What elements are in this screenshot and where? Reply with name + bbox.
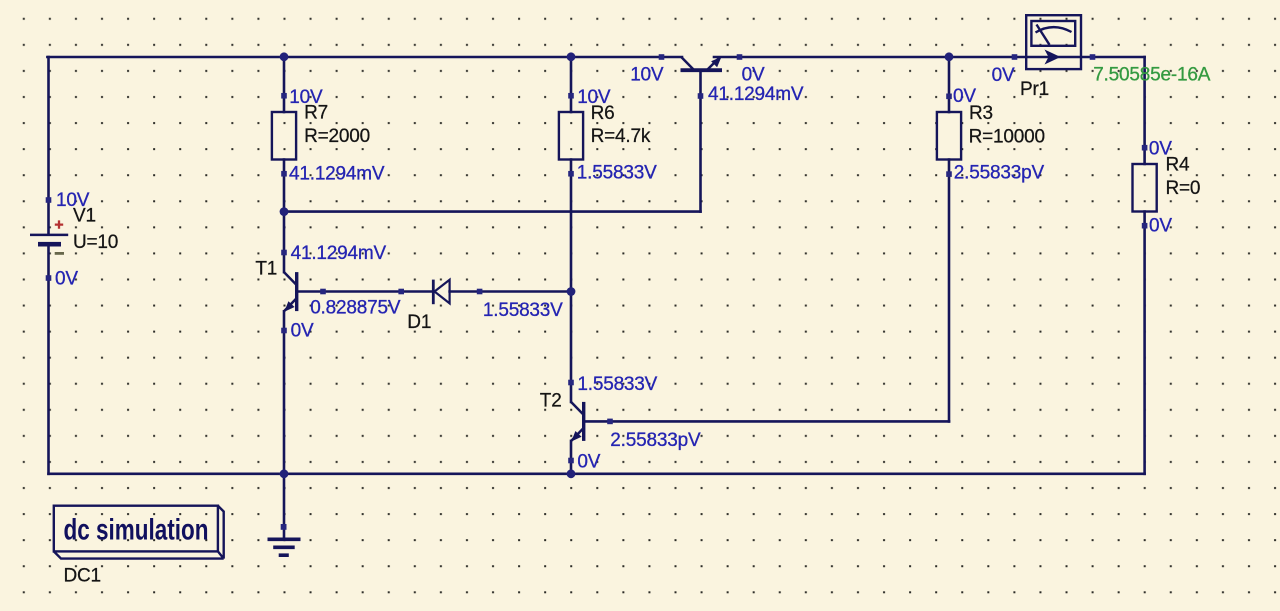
wire R6 branch upper — [570, 57, 573, 112]
wire bottom horizontal — [49, 472, 1145, 475]
wire top right horizontal — [714, 56, 1145, 59]
svg-text:0V: 0V — [742, 65, 765, 86]
svg-text:1.55833V: 1.55833V — [577, 374, 657, 395]
resistor R6 — [559, 112, 583, 160]
wire T1 emitter down — [283, 311, 286, 474]
dc simulation block DC1 — [54, 506, 224, 559]
svg-text:0V: 0V — [291, 320, 314, 341]
junction node F (284,473.8) — [280, 469, 289, 478]
svg-text:R=4.7k: R=4.7k — [591, 126, 651, 147]
dc simulation text — [64, 513, 209, 547]
R6 pin ticks — [568, 93, 574, 99]
junction node A (284,57) — [280, 52, 289, 61]
R3 pin ticks — [946, 94, 952, 100]
wire T1 base to D1 cathode — [298, 290, 433, 293]
Pr1 pin ticks — [1012, 54, 1018, 60]
wire R4 branch upper — [1143, 57, 1146, 164]
junction node E (571,291.5) — [567, 287, 576, 296]
svg-text:0V: 0V — [953, 86, 976, 107]
svg-text:2.55833pV: 2.55833pV — [954, 162, 1045, 183]
transistor top (pnp-like) — [681, 57, 723, 70]
svg-text:41.1294mV: 41.1294mV — [289, 163, 385, 184]
svg-text:U=10: U=10 — [73, 232, 118, 253]
wire top transistor base down — [699, 72, 702, 212]
R7 pin ticks — [281, 93, 287, 99]
svg-text:0V: 0V — [55, 269, 78, 290]
svg-text:1.55833V: 1.55833V — [483, 300, 563, 321]
svg-text:0.828875V: 0.828875V — [310, 298, 401, 319]
transistor T1 — [284, 272, 297, 311]
wire D1 anode to node — [450, 290, 571, 293]
wire R7 branch upper — [283, 57, 286, 112]
T1 pin ticks — [281, 250, 287, 256]
wire R4 branch lower — [1143, 212, 1146, 474]
svg-text:R=2000: R=2000 — [304, 126, 370, 147]
resistor R3 — [937, 112, 961, 160]
wire T2 base row — [584, 420, 949, 423]
svg-text:1.55833V: 1.55833V — [577, 163, 657, 184]
svg-text:R=10000: R=10000 — [969, 127, 1045, 148]
wire R3 branch upper — [948, 57, 951, 112]
svg-text:0V: 0V — [992, 65, 1015, 86]
svg-text:41.1294mV: 41.1294mV — [291, 243, 387, 264]
svg-text:T1: T1 — [255, 258, 277, 279]
wire base row y212 — [284, 210, 701, 213]
wire R3 riser — [948, 160, 951, 422]
svg-text:DC1: DC1 — [64, 565, 101, 586]
svg-text:0V: 0V — [1149, 216, 1172, 237]
voltage source V1 — [30, 220, 68, 253]
svg-text:0V: 0V — [1149, 138, 1172, 159]
resistor R4 — [1133, 164, 1157, 212]
junction node B (571,57) — [567, 52, 576, 61]
svg-text:dc simulation: dc simulation — [64, 513, 209, 547]
svg-text:41.1294mV: 41.1294mV — [708, 84, 804, 105]
junction node G (571,473.8) — [567, 469, 576, 478]
wire left vertical lower — [47, 246, 50, 473]
svg-text:7.50585e-16A: 7.50585e-16A — [1093, 65, 1211, 86]
junction node D (284,211.6) — [280, 207, 289, 216]
svg-text:10V: 10V — [630, 65, 664, 86]
wire R6 down to T2 collector — [570, 160, 573, 403]
wire top left horizontal — [47, 56, 682, 59]
ground — [268, 539, 301, 555]
junction node C (949,57) — [945, 52, 954, 61]
wire left vertical upper — [47, 57, 50, 234]
diode D1 — [433, 280, 449, 305]
T2 pin ticks — [568, 380, 574, 386]
wire ground stub — [283, 474, 286, 538]
wire R7 to T1 collector — [283, 160, 286, 273]
svg-text:Pr1: Pr1 — [1020, 79, 1049, 100]
V1 pin ticks — [46, 197, 52, 203]
R4 pin ticks — [1142, 145, 1148, 151]
wire T2 emitter down — [570, 441, 573, 474]
svg-text:10V: 10V — [289, 87, 323, 108]
ammeter Pr1 — [1026, 15, 1081, 69]
svg-text:0V: 0V — [577, 451, 600, 472]
svg-text:T2: T2 — [540, 391, 562, 412]
svg-text:10V: 10V — [577, 87, 611, 108]
svg-text:2.55833pV: 2.55833pV — [610, 430, 701, 451]
transistor T2 — [571, 402, 584, 441]
svg-text:R=0: R=0 — [1166, 178, 1201, 199]
ground pin tick — [281, 524, 287, 530]
top transistor pin ticks — [659, 54, 665, 60]
svg-text:D1: D1 — [407, 312, 431, 333]
svg-text:10V: 10V — [56, 190, 90, 211]
resistor R7 — [272, 112, 296, 160]
